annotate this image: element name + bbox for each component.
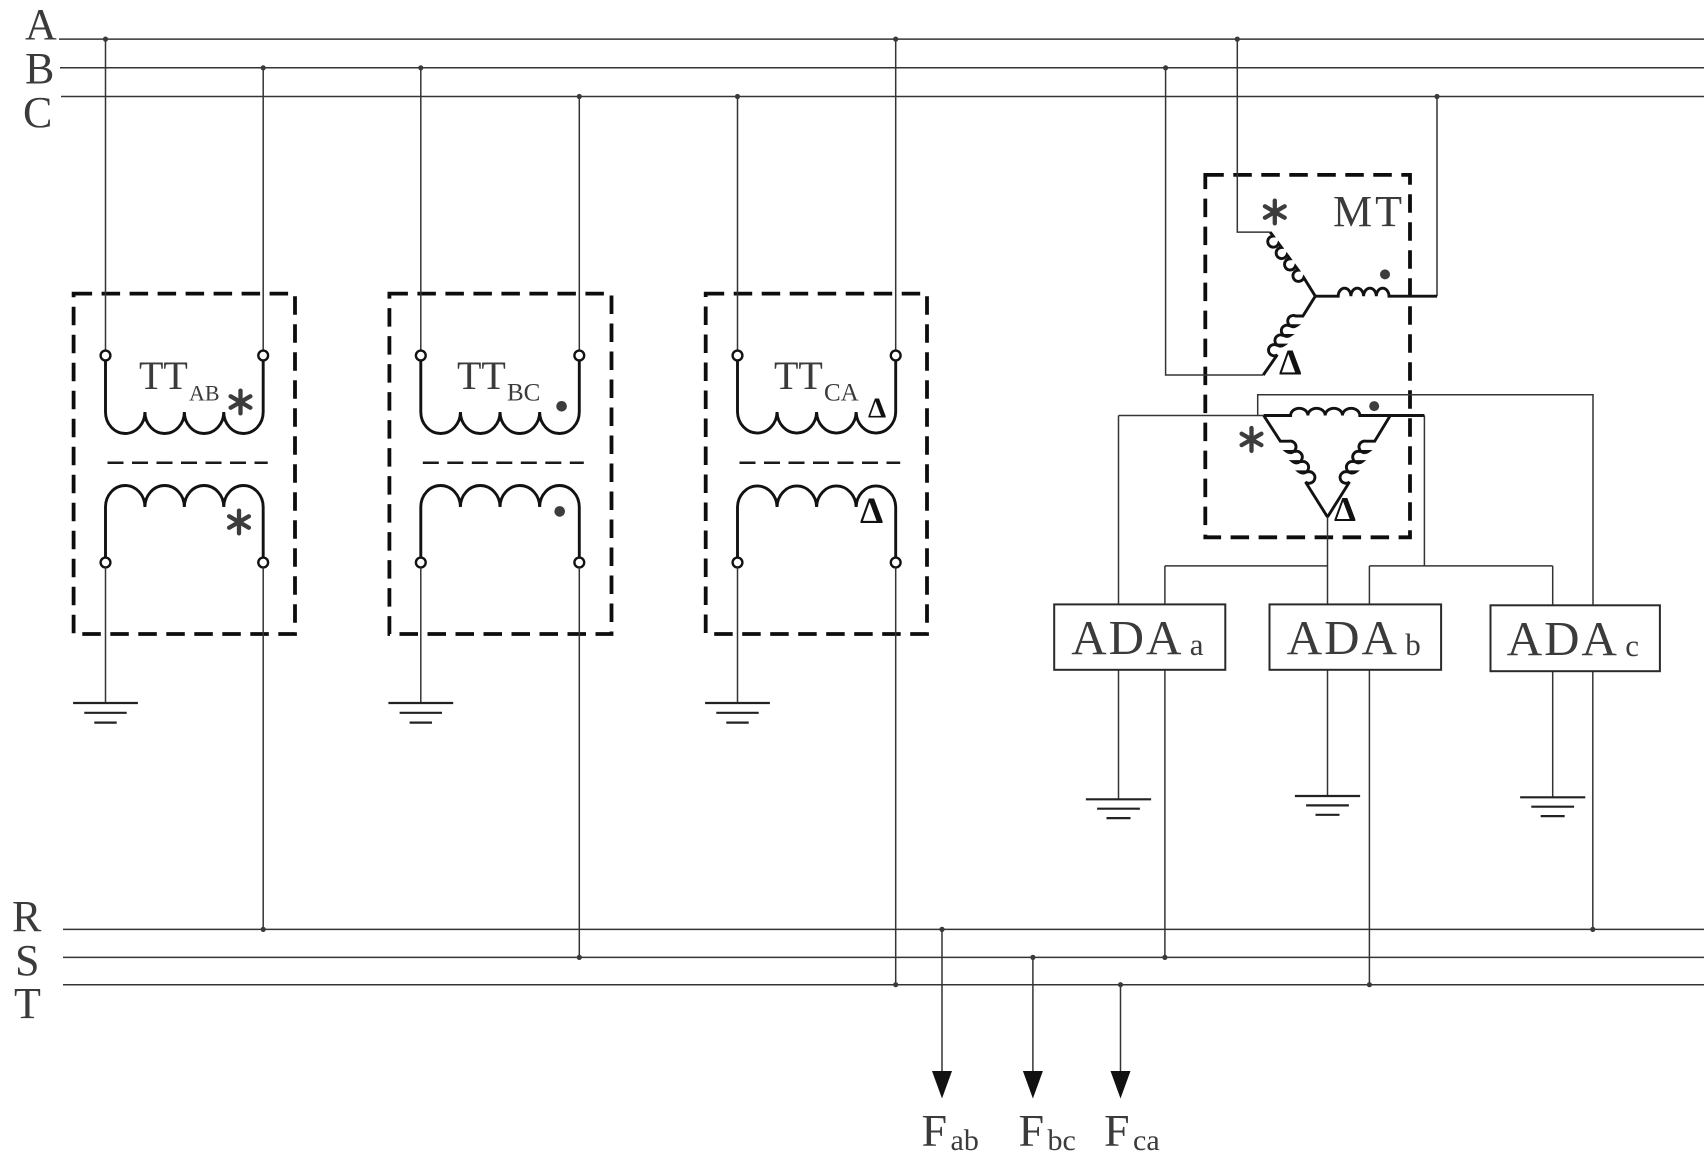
block ADA_a (1054, 604, 1225, 669)
wire bus to TTab primary right (262, 68, 264, 351)
svg-text:a: a (1190, 627, 1204, 662)
ground (TTab) (73, 702, 138, 704)
svg-text:ADA: ADA (1071, 610, 1183, 665)
block ADA_c (1491, 605, 1660, 671)
svg-text:ca: ca (1133, 1124, 1160, 1154)
arrow & label F_ab (941, 929, 943, 1072)
wire ADA_c left to ground (1552, 671, 1554, 797)
polarity dot TTbc primary (556, 401, 567, 412)
svg-text:A: A (25, 0, 57, 49)
polarity mark * TTab secondary (237, 511, 241, 534)
TTbc primary terminal right (574, 351, 584, 361)
junction dot output bus (TTab) (261, 927, 266, 932)
polarity dot (MT delta) (1369, 401, 1379, 411)
TTbc primary winding (421, 358, 580, 434)
svg-text:Δ: Δ (1334, 490, 1356, 529)
svg-text:ADA: ADA (1507, 611, 1619, 666)
ground (TTbc) (388, 702, 453, 704)
wire ADA_b right to bus T (1368, 670, 1370, 985)
wire node b: drop to ADA_a right (1164, 566, 1166, 605)
svg-text:Δ: Δ (868, 393, 886, 425)
junction dot bus R (ADA_c) (1590, 927, 1595, 932)
TTab secondary winding (106, 486, 264, 560)
svg-text:Δ: Δ (1279, 342, 1302, 382)
TTab secondary terminal left (101, 558, 111, 568)
junction dot output bus (TTbc) (577, 955, 582, 960)
TTbc primary terminal left (416, 351, 426, 361)
wire TTab secondary right to output bus (262, 567, 264, 929)
polarity mark * (MT wye) (1273, 201, 1277, 224)
wire TTca secondary right to output bus (895, 567, 897, 984)
wire bus B to MT (1166, 68, 1264, 375)
TTab primary winding (106, 358, 264, 434)
svg-text:AB: AB (189, 381, 220, 406)
wire node c: drop to ADA_b right (1368, 566, 1370, 605)
wire node a: drop to ADA_a left (1118, 416, 1120, 605)
wire bus to TTab primary left (105, 39, 107, 351)
TTca secondary terminal right (891, 558, 901, 568)
junction dot bus C (MT) (1434, 94, 1439, 99)
wire bus C to MT (1436, 97, 1438, 297)
svg-text:b: b (1405, 627, 1421, 662)
wire bus to TTca primary right (895, 39, 897, 351)
wire TTbc secondary left to ground (420, 567, 422, 703)
TTab core divider (108, 461, 268, 464)
wire ADA_a right to bus S (1164, 670, 1166, 958)
wire node b: horizontal to ADA_a right (1165, 565, 1328, 567)
bus B (60, 67, 1704, 69)
bus R (63, 928, 1704, 930)
svg-text:R: R (12, 892, 42, 941)
wire node b: delta bottom drop to ADA_b left (1327, 517, 1329, 604)
junction dot on bus (TTca left) (735, 94, 740, 99)
bus C (61, 96, 1704, 98)
svg-text:C: C (23, 88, 52, 137)
wire TTca secondary left to ground (737, 567, 739, 703)
TTca primary terminal right (891, 351, 901, 361)
wire ADA_c right to bus R (1592, 671, 1594, 929)
bus T (63, 984, 1704, 986)
svg-text:F: F (922, 1105, 948, 1154)
MT wye winding phase B coil (1263, 296, 1315, 375)
bus A (59, 38, 1704, 40)
junction dot bus T (ADA_b) (1367, 982, 1372, 987)
junction dot bus S (ADA_a) (1162, 955, 1167, 960)
transformer TTbc dashed box (389, 294, 611, 634)
ground (ADA_b) (1295, 795, 1360, 797)
polarity mark * TTab primary (238, 391, 242, 414)
svg-text:ab: ab (951, 1124, 979, 1154)
TTab primary terminal left (101, 351, 111, 361)
svg-text:TT: TT (457, 353, 506, 398)
transformer TTab dashed box (74, 294, 295, 634)
ground (ADA_a) (1086, 798, 1151, 800)
wire TTbc secondary right to output bus (578, 567, 580, 957)
wire node c: horizontal ADA_b right to ADA_c left (1369, 565, 1552, 567)
wire bus to TTca primary left (737, 97, 739, 351)
svg-text:bc: bc (1048, 1124, 1076, 1154)
wire bus A to MT (1237, 39, 1270, 232)
wire node a: delta top-left to ADA_a left (1119, 415, 1264, 417)
svg-text:BC: BC (507, 380, 540, 407)
arrow & label F_bc (1032, 957, 1034, 1072)
wire ADA_b left to ground (1327, 670, 1329, 796)
wire ADA_a left to ground (1118, 670, 1120, 800)
TTab secondary terminal right (258, 558, 268, 568)
wire bus to TTbc primary left (420, 68, 422, 351)
svg-text:CA: CA (824, 380, 859, 407)
junction dot on bus (TTab right) (261, 65, 266, 70)
polarity mark * (MT delta) (1249, 428, 1253, 451)
junction dot bus B (MT) (1163, 65, 1168, 70)
svg-text:Δ: Δ (860, 491, 883, 532)
ground (ADA_c) (1520, 796, 1585, 798)
junction dot on bus (TTca right) (893, 37, 898, 42)
junction dot on bus (TTbc left) (418, 65, 423, 70)
MT delta right winding (1328, 416, 1391, 518)
transformer TTca dashed box (706, 294, 927, 634)
MT wye winding phase C coil (1315, 288, 1437, 296)
svg-text:ADA: ADA (1287, 610, 1399, 665)
junction dot bus A (MT) (1235, 37, 1240, 42)
MT delta top winding (1264, 408, 1425, 415)
svg-text:F: F (1104, 1105, 1130, 1154)
TTbc secondary terminal right (574, 558, 584, 568)
TTca secondary winding (738, 486, 896, 560)
TTab primary terminal right (258, 351, 268, 361)
TTca primary terminal left (733, 351, 743, 361)
wire node c: delta top-right drop (1423, 416, 1425, 566)
svg-text:c: c (1625, 628, 1639, 663)
polarity dot (MT wye) (1380, 269, 1390, 279)
TTbc core divider (423, 461, 584, 464)
MT delta left winding (1264, 416, 1328, 518)
svg-text:F: F (1019, 1105, 1045, 1154)
wire node a: delta top-left up-over to ADA_c right (1258, 395, 1593, 606)
junction dot on bus (TTab left) (103, 37, 108, 42)
svg-text:MT: MT (1333, 187, 1405, 236)
wire bus to TTbc primary right (578, 97, 580, 351)
TTbc secondary winding (421, 486, 580, 560)
wire node c: drop to ADA_c left (1552, 566, 1554, 605)
block ADA_b (1270, 604, 1442, 669)
arrow & label F_ca (1120, 985, 1122, 1072)
TTbc secondary terminal left (416, 558, 426, 568)
TTca primary winding (738, 358, 896, 433)
transformer MT dashed box (1205, 175, 1410, 537)
svg-text:B: B (25, 44, 54, 93)
TTca core divider (740, 461, 901, 464)
ground (TTca) (705, 702, 770, 704)
TTca secondary terminal left (733, 558, 743, 568)
polarity dot TTbc secondary (554, 506, 565, 517)
junction dot on bus (TTbc right) (577, 94, 582, 99)
bus S (63, 956, 1704, 958)
svg-text:T: T (14, 979, 41, 1028)
svg-text:S: S (15, 936, 39, 985)
svg-text:TT: TT (139, 353, 188, 398)
svg-text:TT: TT (774, 353, 823, 398)
MT wye winding phase A coil (1268, 232, 1316, 296)
junction dot output bus (TTca) (893, 982, 898, 987)
wire TTab secondary left to ground (105, 567, 107, 703)
